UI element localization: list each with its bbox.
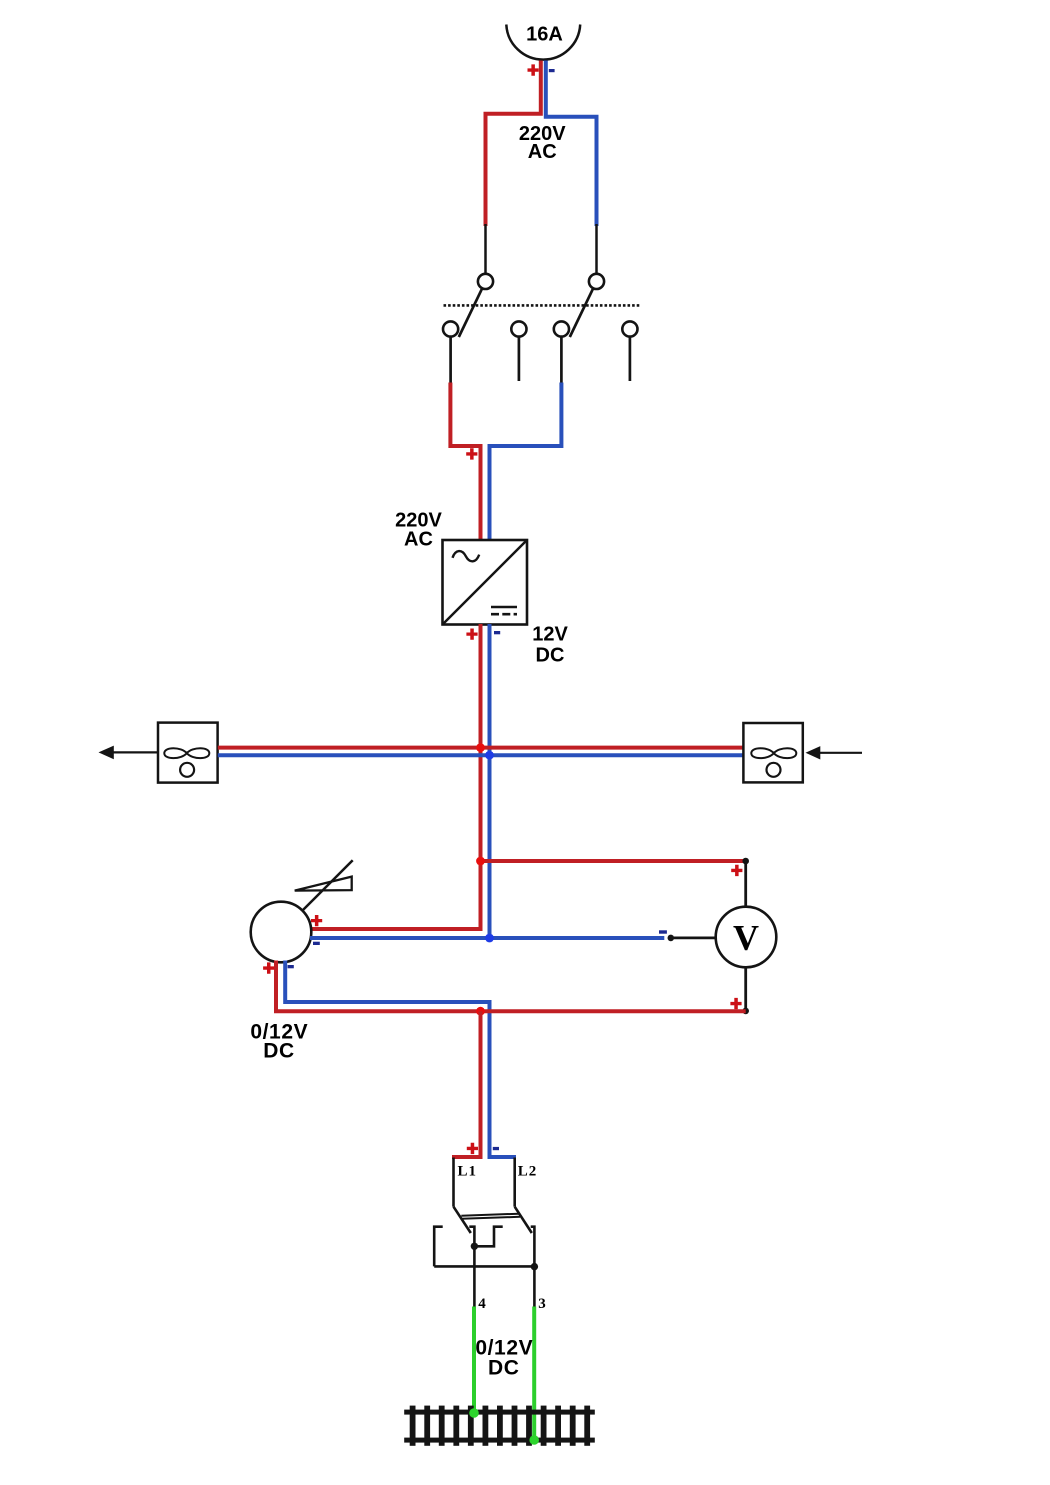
point motor step link: [474, 1227, 502, 1247]
label 0/12V DC (pot): [250, 1020, 308, 1062]
switch S1 throw contact 3: [554, 321, 569, 336]
label 12V DC: [532, 624, 568, 667]
converter U1 DC symbol: [491, 607, 517, 614]
wire to terminal 3: [533, 1267, 536, 1307]
point motor linkage double line: [461, 1214, 520, 1219]
wire blue: pot wiper to node B and voltmeter: [310, 936, 664, 940]
potentiometer R1 body: [251, 902, 312, 963]
point motor centre contact: [469, 1227, 474, 1247]
voltmeter V1: [716, 907, 777, 968]
label 0/12V DC (track): [475, 1336, 533, 1379]
point motor coil lead L1: [452, 1158, 455, 1207]
potentiometer R1 wiper arrow: [303, 860, 353, 910]
svg-text:AC: AC: [404, 529, 433, 551]
wire blue bus: converter to node B: [488, 624, 492, 938]
plus label pot right: [311, 915, 322, 926]
wire red: switch to converter: [450, 383, 480, 542]
switch S1 lower stem 3: [560, 337, 563, 384]
fan M2 airflow arrow: [806, 746, 863, 759]
green connection node rail 1: [469, 1408, 479, 1418]
wire red: pot bottom to voltmeter bottom branch: [276, 961, 746, 1012]
plus label above converter: [466, 448, 477, 459]
minus label pot bottom: [288, 965, 294, 968]
track sleepers: [410, 1406, 590, 1446]
converter U1 diagonal: [444, 541, 527, 624]
plus label pot bottom: [263, 962, 274, 973]
junction node red (voltmeter top branch): [476, 857, 485, 866]
track rail 2: [404, 1438, 595, 1443]
terminal dot voltmeter bottom: [742, 1008, 749, 1015]
minus label voltmeter left: [659, 930, 667, 933]
switch S1 upper stem right: [595, 224, 598, 274]
wire to terminal 4: [473, 1246, 476, 1306]
wire red: fan M1 to fan M2: [218, 746, 743, 750]
minus label at breaker: [549, 69, 555, 72]
circuit breaker F1 (16A): [506, 24, 580, 60]
svg-text:L1: L1: [458, 1164, 478, 1180]
plus label at point motor: [467, 1143, 478, 1154]
junction node red (fan bus): [476, 743, 485, 752]
point motor bottom rail: [434, 1265, 536, 1268]
wire blue: pot bottom to lower bus: [285, 961, 489, 1158]
minus label at converter output: [494, 631, 500, 634]
green connection node rail 2: [529, 1435, 539, 1445]
plus label at converter output: [466, 629, 477, 640]
svg-text:3: 3: [538, 1296, 547, 1312]
svg-text:4: 4: [478, 1296, 487, 1312]
wire green: terminal 3 to track rail 2: [532, 1307, 536, 1441]
fan M1 airflow arrow: [99, 746, 159, 760]
junction node blue (fan bus): [485, 751, 494, 760]
wire red: breaker to switch pole 1: [486, 61, 541, 227]
fan M1 box (left): [158, 723, 218, 783]
switch S1 throw contact 2: [511, 321, 526, 336]
converter U1 (AC/DC) box: [443, 540, 528, 625]
svg-text:DC: DC: [488, 1357, 520, 1380]
junction node red (bottom branch): [476, 1007, 485, 1016]
switch S1 pole contact right: [589, 274, 604, 289]
converter U1 sine symbol: [453, 551, 480, 561]
switch S1 arm left: [459, 288, 482, 337]
svg-text:AC: AC: [528, 141, 557, 163]
wire red: node to voltmeter plus (top): [481, 859, 746, 863]
point motor arm left: [454, 1207, 471, 1233]
point motor arm right: [515, 1207, 532, 1233]
fan M2 box (right): [743, 723, 802, 782]
switch S1 lower stem 4 (unused): [629, 337, 632, 381]
point motor right contact: [531, 1227, 535, 1267]
lead voltmeter bottom: [744, 967, 747, 1011]
wire blue corner into point motor: [490, 1155, 517, 1157]
point motor left bracket contact: [434, 1227, 443, 1267]
wire blue: switch to converter: [490, 383, 562, 542]
switch S1 mechanical linkage (dashed): [444, 304, 641, 307]
wire blue: fan M1 to fan M2: [218, 753, 743, 757]
wire blue: breaker to switch pole 2: [546, 61, 597, 227]
terminal dot voltmeter top: [742, 858, 749, 865]
switch S1 lower stem 2 (unused): [518, 337, 521, 381]
plus label at breaker: [528, 64, 539, 75]
track rail 1: [404, 1410, 595, 1415]
svg-text:L2: L2: [518, 1164, 538, 1180]
switch S1 upper stem left: [484, 224, 487, 274]
wire red bus: converter to potentiometer: [310, 624, 481, 929]
wire green: terminal 4 to track rail 1: [472, 1307, 476, 1414]
terminal dot voltmeter left: [668, 935, 675, 942]
label 220V AC (mains): [519, 123, 566, 163]
junction node (right contact): [531, 1263, 538, 1270]
fan M2 rotor symbol: [751, 748, 796, 777]
svg-text:DC: DC: [536, 644, 565, 666]
switch S1 arm right: [570, 288, 593, 337]
minus label pot right: [313, 942, 320, 945]
plus label voltmeter bottom: [730, 998, 741, 1009]
switch S1 throw contact 1: [443, 321, 458, 336]
point motor coil lead L2: [513, 1158, 516, 1207]
switch S1 throw contact 4: [622, 321, 637, 336]
lead voltmeter left: [671, 937, 716, 940]
svg-text:12V: 12V: [532, 624, 568, 646]
switch S1 lower stem 1: [449, 337, 452, 384]
minus label at point motor: [493, 1147, 499, 1150]
wire red: bus down to point motor: [452, 1011, 481, 1157]
svg-text:V: V: [733, 918, 759, 958]
lead voltmeter top: [744, 861, 747, 907]
plus label voltmeter top: [731, 865, 742, 876]
junction node blue B: [485, 934, 494, 943]
junction node (centre contact): [471, 1243, 478, 1250]
potentiometer R1 wiper flag: [295, 877, 352, 891]
switch S1 pole contact left: [478, 274, 493, 289]
label 220V AC (converter input): [395, 510, 442, 551]
fan M1 rotor symbol: [164, 748, 209, 777]
svg-text:DC: DC: [263, 1040, 295, 1063]
svg-text:16A: 16A: [526, 24, 563, 46]
